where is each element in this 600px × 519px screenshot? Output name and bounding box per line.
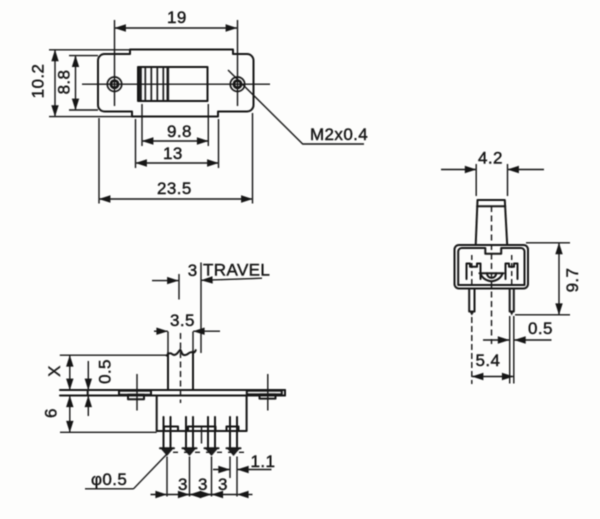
svg-text:9.8: 9.8 (167, 122, 192, 141)
svg-text:3.5: 3.5 (170, 311, 195, 330)
dimension 3.5 (knob width) (154, 311, 220, 353)
dimension X (45, 355, 70, 390)
side view right contact terminal (506, 264, 518, 280)
front view knob (168, 352, 193, 391)
svg-text:23.5: 23.5 (157, 179, 192, 198)
dimension 1.1 (pin width) (213, 452, 275, 471)
svg-text:13: 13 (163, 144, 183, 163)
front view pin 2 (183, 417, 197, 456)
svg-text:3: 3 (198, 475, 208, 494)
extension line body bottom (60, 431, 157, 433)
dimension 9.7 (overall height) (515, 243, 582, 315)
side view body outline (455, 245, 529, 289)
leader line M2x0.4 (228, 70, 364, 144)
knob break wave line (167, 350, 196, 356)
pin boss 2-3 (188, 427, 216, 432)
svg-text:10.2: 10.2 (28, 64, 47, 99)
svg-text:4.2: 4.2 (478, 149, 503, 168)
side view centerline dashed (491, 206, 493, 344)
svg-text:φ0.5: φ0.5 (91, 470, 127, 489)
svg-text:TRAVEL: TRAVEL (203, 261, 270, 280)
left pin centerline dash-dot (471, 255, 473, 384)
top view knob serration hatch (139, 68, 168, 101)
side view knob (476, 200, 508, 245)
dimension 6 (body height) (41, 396, 69, 433)
pin 4 edge extensions (230, 457, 237, 497)
dimension 5.4 (pin spacing) (472, 351, 513, 377)
dimension 19 (hole spacing) (115, 8, 238, 28)
dimension 23.5 (plate length) (99, 113, 253, 204)
label M2x0.4 (310, 125, 368, 144)
right mounting hole (230, 77, 244, 91)
front view pin 3 (205, 417, 219, 456)
side view left contact terminal (467, 264, 481, 280)
svg-text:3: 3 (218, 475, 228, 494)
leader phi 0.5 (pin diameter) (85, 455, 167, 490)
right pin centerline dash (511, 255, 513, 287)
body center mark (201, 427, 203, 444)
dimension 3-3-3 (pin pitch) (151, 475, 253, 495)
extension line X top (60, 354, 167, 356)
left mounting hole centerline vertical (114, 20, 116, 106)
svg-text:6: 6 (41, 408, 60, 418)
dimension 4.2 (knob width) (441, 149, 544, 197)
pin boss 4 (227, 427, 239, 432)
front view pin 4 (227, 417, 241, 456)
dimension 3 TRAVEL (152, 261, 270, 354)
right hole centerline front view (267, 374, 269, 411)
side view right pin (509, 289, 514, 316)
svg-text:X: X (45, 365, 64, 377)
front view body outline (157, 396, 247, 432)
side view body inner wall (458, 248, 524, 285)
svg-text:0.5: 0.5 (95, 359, 114, 384)
top view plate outline (98, 50, 254, 117)
side view left pin (469, 289, 475, 316)
pin tips dashed line (173, 451, 250, 453)
svg-text:3: 3 (188, 261, 198, 280)
svg-text:3: 3 (178, 475, 188, 494)
dimension 9.8 (knob length) (142, 104, 208, 146)
knob centerline dashed (180, 333, 182, 403)
left mounting hole (107, 77, 121, 91)
svg-text:5.4: 5.4 (476, 351, 501, 370)
svg-text:M2x0.4: M2x0.4 (310, 125, 368, 144)
front view right mounting tab (247, 391, 282, 399)
pin boss 1 (164, 427, 178, 432)
dimension 0.5 (plate thickness) (88, 359, 114, 416)
dimension 8.8 (body height) (54, 56, 98, 110)
svg-text:8.8: 8.8 (54, 70, 73, 95)
top view slider knob outline (138, 67, 208, 101)
dimension 0.5 (pin thickness, side view) (483, 319, 553, 340)
pin 3 extension (211, 457, 213, 497)
pin 2 extension (189, 457, 191, 497)
top view horizontal centerline (82, 83, 270, 85)
svg-text:1.1: 1.1 (251, 452, 276, 471)
front view pin 1 (160, 417, 174, 456)
dimension 10.2 (plate height) (28, 50, 132, 117)
left hole centerline front view (136, 374, 138, 411)
front view mounting plate (60, 390, 285, 396)
side view movable contact rocker (480, 273, 504, 281)
svg-text:19: 19 (167, 8, 187, 27)
dimension 13 (opening length) (136, 119, 219, 168)
right mounting hole centerline vertical (237, 20, 239, 106)
front view left mounting tab (119, 391, 151, 399)
right pin edge extension lines (510, 316, 514, 384)
svg-text:0.5: 0.5 (528, 319, 553, 338)
svg-text:9.7: 9.7 (563, 268, 582, 293)
pin 1 extension (166, 457, 168, 497)
